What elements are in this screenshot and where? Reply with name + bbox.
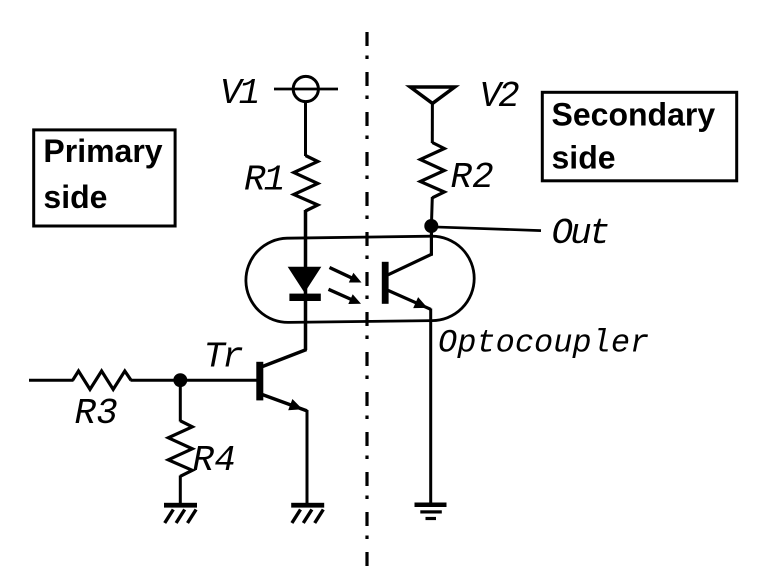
svg-text:R1: R1 xyxy=(244,160,283,201)
LED anode triangle xyxy=(289,267,321,292)
svg-text:Optocoupler: Optocoupler xyxy=(438,324,649,361)
earth ground under optocoupler emitter xyxy=(415,503,447,521)
wire V1 to R1 xyxy=(304,102,307,156)
wire base node to R4 xyxy=(179,380,182,421)
svg-text:R4: R4 xyxy=(193,440,236,481)
ground under R4 xyxy=(164,503,197,523)
transistor Tr emitter with arrow xyxy=(263,395,308,411)
svg-text:side: side xyxy=(43,179,107,215)
wire emitter to ground xyxy=(429,309,432,504)
svg-text:Secondary: Secondary xyxy=(552,97,716,133)
ground under Tr emitter xyxy=(291,503,324,523)
node base junction dot xyxy=(173,373,187,387)
transistor Tr collector xyxy=(263,350,307,367)
wire Out xyxy=(431,227,541,231)
resistor R1 xyxy=(294,156,318,212)
svg-text:V1: V1 xyxy=(220,73,258,114)
svg-text:Out: Out xyxy=(552,213,608,254)
voltage source V1 xyxy=(274,76,338,101)
secondary side label box xyxy=(542,92,736,181)
resistor R4 xyxy=(168,421,192,477)
svg-text:R3: R3 xyxy=(75,393,118,434)
wire R3 to base node xyxy=(131,379,182,382)
svg-text:Primary: Primary xyxy=(43,133,162,169)
resistor R2 xyxy=(420,143,444,198)
svg-text:V2: V2 xyxy=(480,76,520,117)
primary side label box xyxy=(34,130,175,226)
light arrow 1 xyxy=(330,268,362,283)
node Out junction dot xyxy=(424,219,438,233)
LED cathode bar xyxy=(289,294,320,301)
phototransistor emitter with arrow xyxy=(388,290,431,309)
supply V2 triangle xyxy=(410,87,454,103)
isolation boundary dash-dot line xyxy=(365,32,368,569)
svg-text:R2: R2 xyxy=(451,157,494,198)
wire V2 to R2 xyxy=(431,103,434,143)
transistor Tr base bar xyxy=(256,362,263,401)
wire R2 to Out node xyxy=(430,197,434,226)
resistor R3 xyxy=(73,371,131,389)
svg-text:side: side xyxy=(552,140,616,176)
phototransistor base bar xyxy=(382,262,389,304)
phototransistor collector xyxy=(388,254,431,274)
wire base node to transistor xyxy=(180,379,256,382)
light arrow 2 xyxy=(329,289,362,304)
svg-text:Tr: Tr xyxy=(204,337,244,378)
wire R4 to ground xyxy=(179,476,182,505)
wire emitter to ground xyxy=(306,410,309,504)
wire R1 through optocoupler LED chain down to transistor collector xyxy=(304,210,308,350)
input wire left xyxy=(29,379,74,382)
optocoupler body (stadium outline) xyxy=(246,236,474,322)
